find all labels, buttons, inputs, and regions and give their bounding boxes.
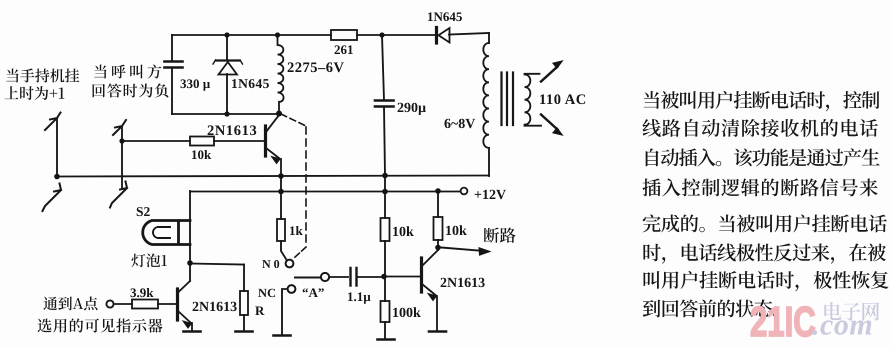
svg-text:10k: 10k bbox=[392, 225, 414, 240]
switch S1a blade top bbox=[45, 113, 61, 131]
switch S1b wire vertical bbox=[121, 127, 123, 188]
resistor R3 1k bottom leg bbox=[281, 241, 286, 259]
resistor R5 body bbox=[240, 291, 248, 315]
wire R branch vertical bbox=[243, 265, 245, 292]
node rail2 1k bbox=[278, 189, 284, 195]
node junction wire to 290u bbox=[382, 35, 384, 100]
switch S1b blade bottom bbox=[110, 182, 127, 208]
node collector Q4 bbox=[435, 245, 441, 251]
resistor R2 10k body bbox=[190, 137, 214, 146]
transistor Q1 base bar bbox=[264, 126, 267, 156]
resistor R4 3.9k body bbox=[132, 300, 158, 309]
svg-text:21IC: 21IC bbox=[750, 298, 816, 345]
node top rail coil bbox=[275, 32, 280, 37]
resistor R7 10k top leg bbox=[437, 191, 439, 217]
text label 叫用户挂断电话时，极性恢复 bbox=[644, 271, 889, 291]
svg-text:110 AC: 110 AC bbox=[539, 92, 587, 108]
node coil collector bbox=[276, 111, 282, 117]
node rail1 S1a bbox=[54, 174, 60, 180]
resistor R3 1k body bbox=[277, 219, 285, 241]
node top rail 290u bbox=[379, 32, 384, 37]
node base wire S1b bbox=[119, 138, 124, 143]
text label 回答时为负 bbox=[93, 83, 169, 97]
svg-text:10k: 10k bbox=[191, 147, 212, 162]
text label 完成的。当被叫用户挂断电话 bbox=[643, 214, 887, 232]
capacitor C1 lower leg bbox=[171, 68, 173, 114]
resistor R8 100k body bbox=[381, 301, 390, 322]
lamp S2 outer shell bbox=[143, 221, 190, 245]
svg-text:N 0: N 0 bbox=[262, 257, 280, 271]
node rail1 290u bbox=[382, 173, 388, 179]
wire A to cap bbox=[330, 276, 349, 278]
wire R branch horizontal bbox=[190, 264, 244, 265]
switch blade AC top bbox=[541, 67, 558, 82]
diode D1 1N645 top leg bbox=[226, 35, 228, 60]
wire Q3 collector vertical bbox=[189, 263, 191, 281]
resistor R7 bottom leg bbox=[437, 240, 439, 250]
switch S1a wire vertical bbox=[56, 120, 58, 176]
transistor Q3 base bar bbox=[176, 289, 179, 320]
capacitor C1 330u plates bbox=[165, 62, 183, 68]
switch blade AC bottom bbox=[541, 115, 558, 130]
ground R bar bbox=[236, 330, 253, 333]
svg-text:2N1613: 2N1613 bbox=[192, 300, 237, 315]
wire base Q1 right bbox=[214, 140, 265, 142]
node mini rail diode bottom bbox=[224, 111, 229, 116]
svg-text:1N645: 1N645 bbox=[427, 9, 463, 24]
svg-text:1k: 1k bbox=[289, 223, 304, 238]
text label 自动插入。该功能是通过产生 bbox=[646, 148, 880, 166]
transformer T1 primary winding bbox=[483, 43, 489, 148]
capacitor C1 330u left leg bbox=[171, 35, 173, 61]
text label 选用的可见指示器 bbox=[38, 318, 163, 332]
terminal A circle bbox=[321, 273, 329, 281]
contact N0 circle bbox=[286, 260, 294, 268]
text label 当被叫用户挂断电话时，控制 bbox=[644, 91, 880, 111]
resistor R3 1k top leg bbox=[280, 191, 282, 219]
capacitor C2 lower leg bbox=[384, 107, 385, 175]
wire R to ground bbox=[243, 315, 245, 331]
svg-text:100k: 100k bbox=[392, 306, 421, 321]
transformer T1 primary vertical bottom bbox=[488, 148, 490, 176]
transistor Q4 emitter bbox=[422, 284, 437, 330]
wire terminal to 3.9k bbox=[114, 303, 132, 305]
ground NC bar bbox=[274, 334, 291, 337]
transistor Q1 collector bbox=[266, 115, 279, 132]
transformer T1 secondary winding bbox=[525, 74, 542, 126]
transistor Q4 collector bbox=[422, 250, 438, 266]
svg-text:R: R bbox=[255, 303, 265, 318]
wire top rail mid section bbox=[357, 34, 436, 36]
transistor Q1 emitter arrow bbox=[272, 157, 281, 164]
capacitor C2 290u plates bbox=[375, 101, 394, 107]
svg-text:2N1613: 2N1613 bbox=[440, 276, 485, 291]
transistor Q4 base bar bbox=[420, 258, 423, 292]
text label 断路 bbox=[484, 227, 516, 242]
resistor R6 bottom leg bbox=[384, 241, 386, 276]
node lamp collector bbox=[187, 260, 193, 266]
svg-text:1.1µ: 1.1µ bbox=[347, 289, 371, 304]
text label 当呼叫方 bbox=[94, 64, 161, 78]
capacitor C3 1.1u plates bbox=[351, 268, 357, 286]
ground 100k bar bbox=[378, 338, 395, 341]
transistor Q4 emitter arrow bbox=[428, 294, 437, 301]
svg-text:+12V: +12V bbox=[474, 188, 506, 203]
switch S1b blade top bbox=[113, 120, 126, 135]
diode D2 1N645 symbol bbox=[437, 28, 450, 44]
open-circuit output arrow bbox=[441, 248, 484, 252]
switch wiper wire bbox=[295, 277, 321, 279]
terminal +12V circle bbox=[461, 188, 468, 195]
resistor R8 bottom leg bbox=[384, 322, 386, 339]
transistor Q1 emitter bbox=[266, 148, 281, 176]
text label 通到A点 bbox=[43, 296, 97, 310]
text label 线路自动清除接收机的电话 bbox=[642, 119, 877, 137]
svg-text:NC: NC bbox=[258, 286, 276, 300]
text label 电子网 bbox=[824, 302, 879, 321]
wire lower mini rail bbox=[172, 113, 279, 115]
relay coil K1 2275-6V bbox=[278, 35, 284, 113]
component value labels (latin) bbox=[130, 9, 587, 321]
wire rail1 horizontal bbox=[57, 176, 489, 177]
text label 上时为+1 bbox=[5, 86, 65, 100]
node rail2 10k left bbox=[382, 189, 388, 195]
svg-text:“A”: “A” bbox=[302, 285, 324, 300]
wire base Q1 left bbox=[122, 140, 190, 142]
wire emitter link rail1 to rail2 bbox=[280, 176, 282, 191]
dashed relay link diagonal bbox=[281, 114, 306, 126]
node top rail diode bbox=[224, 32, 229, 37]
text label 灯泡1 bbox=[131, 253, 167, 267]
node rail2 10k right bbox=[435, 188, 441, 194]
node rail1 emitter Q1 bbox=[278, 173, 284, 179]
switch S1a blade bottom bbox=[43, 184, 62, 212]
resistor R7 10k body bbox=[434, 217, 443, 240]
svg-text:290µ: 290µ bbox=[397, 101, 426, 116]
transistor Q3 collector diagonal bbox=[179, 281, 191, 292]
svg-text:S2: S2 bbox=[136, 204, 151, 219]
wire link 290u rail1 to rail2 bbox=[384, 175, 386, 191]
dashed relay link vertical bbox=[305, 127, 307, 247]
text label 插入控制逻辑的断路信号来 bbox=[643, 178, 878, 196]
wire top rail right section bbox=[449, 33, 489, 35]
watermark 21IC bbox=[750, 298, 873, 345]
dashed relay link lower diagonal bbox=[294, 247, 306, 258]
transistor Q3 emitter arrow bbox=[183, 321, 192, 328]
svg-text:.com: .com bbox=[812, 309, 873, 342]
wire NC bracket bbox=[282, 289, 288, 335]
wire base Q4 bbox=[385, 276, 421, 278]
wire rail2 +12V bbox=[190, 191, 461, 193]
svg-text:261: 261 bbox=[334, 42, 354, 57]
diode D1 bottom leg bbox=[226, 74, 228, 114]
resistor R6 10k top leg bbox=[384, 191, 386, 218]
wire cap to junction bbox=[357, 276, 385, 278]
svg-text:1N645: 1N645 bbox=[231, 76, 270, 91]
svg-text:2N1613: 2N1613 bbox=[207, 123, 257, 139]
node base junction Q4 bbox=[381, 274, 387, 280]
wire top rail left section bbox=[172, 34, 331, 36]
text label 时，电话线极性反过来，在被 bbox=[643, 243, 885, 263]
lamp S2 inner loop bbox=[153, 227, 170, 238]
resistor R6 10k body bbox=[381, 218, 390, 241]
wire 3.9k to base Q3 bbox=[158, 303, 176, 305]
svg-text:6~8V: 6~8V bbox=[444, 117, 475, 132]
ground Q4 bar bbox=[429, 330, 446, 333]
svg-text:2275–6V: 2275–6V bbox=[287, 60, 345, 76]
contact NC circle bbox=[288, 285, 296, 293]
text label 到回答前的状态。 bbox=[643, 299, 779, 317]
transformer T1 core bbox=[502, 73, 514, 126]
ground Q3 bar bbox=[184, 330, 201, 333]
terminal A-point circle bbox=[106, 300, 113, 307]
svg-text:10k: 10k bbox=[445, 224, 467, 239]
wire lamp branch vertical bbox=[189, 191, 191, 263]
resistor R1 261 body bbox=[331, 30, 357, 40]
diode D1 1N645 symbol bbox=[213, 60, 243, 75]
text label 当手持机挂 bbox=[6, 69, 79, 83]
svg-text:3.9k: 3.9k bbox=[130, 285, 154, 300]
transistor Q3 emitter bbox=[178, 311, 192, 331]
svg-text:330 µ: 330 µ bbox=[180, 76, 211, 91]
resistor R8 100k top leg bbox=[384, 276, 386, 301]
transformer T1 primary vertical top bbox=[488, 33, 490, 43]
